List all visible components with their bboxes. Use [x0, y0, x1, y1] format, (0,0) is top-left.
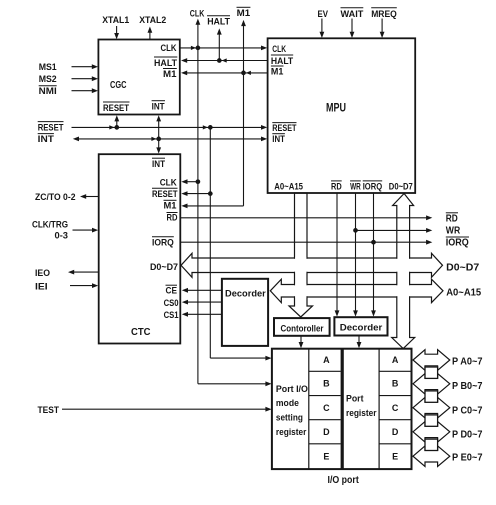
svg-text:CLK: CLK	[272, 44, 286, 55]
label WR right	[446, 225, 461, 236]
svg-text:MPU: MPU	[326, 101, 346, 115]
svg-text:RESET: RESET	[38, 122, 64, 133]
bus D0~D7 vertical (MPU down to I/O port)	[392, 194, 415, 349]
wire M1 down into CTC	[181, 73, 243, 208]
port square A-B	[425, 367, 438, 378]
svg-text:D0~D7: D0~D7	[446, 263, 479, 274]
svg-text:RD: RD	[167, 213, 178, 224]
svg-text:RESET: RESET	[103, 103, 129, 114]
svg-text:INT: INT	[152, 102, 165, 113]
bus A0~A15 vertical (MPU down to Contoroller)	[289, 193, 313, 317]
pin MPU WR	[350, 181, 361, 192]
wire CLK into CTC	[181, 179, 198, 184]
pin CTC D0~D7	[150, 262, 178, 273]
label RESET left	[38, 122, 64, 134]
svg-text:XTAL2: XTAL2	[139, 15, 166, 26]
port arrow P E0~7	[413, 446, 450, 467]
block Decorder U4	[222, 279, 268, 346]
pin MPU IORQ	[363, 181, 383, 192]
svg-text:WAIT: WAIT	[341, 9, 364, 20]
svg-text:I/O port: I/O port	[328, 475, 360, 486]
svg-text:B: B	[323, 379, 330, 389]
svg-text:A0~A15: A0~A15	[274, 181, 303, 192]
wire RESET into CTC	[181, 191, 210, 196]
wire XTAL2 out of CGC top	[148, 27, 153, 40]
title CTC	[131, 326, 151, 338]
pin CGC RESET	[103, 102, 130, 114]
svg-text:Decorder: Decorder	[340, 323, 383, 334]
svg-text:WR: WR	[446, 225, 461, 236]
wire IEO out of CTC	[68, 270, 99, 275]
svg-text:CS0: CS0	[164, 298, 179, 309]
label WAIT	[341, 8, 364, 20]
svg-text:Decorder: Decorder	[225, 288, 266, 299]
label MS2	[39, 74, 57, 85]
wire Decorder to I/O port	[357, 336, 362, 349]
text Port register	[346, 394, 377, 419]
svg-text:register: register	[276, 427, 307, 438]
wire CS0 from Decorder to CTC	[182, 300, 222, 305]
wire TEST into I/O port	[62, 407, 272, 412]
svg-text:M1: M1	[237, 8, 251, 19]
bus D0~D7 horizontal (CTC to right edge)	[181, 253, 443, 277]
wire MREQ into MPU top	[380, 19, 385, 39]
label IEI	[35, 281, 48, 292]
svg-text:NMI: NMI	[39, 86, 57, 97]
svg-text:IORQ: IORQ	[152, 237, 174, 248]
pin CTC RD	[167, 213, 178, 224]
svg-text:A0~A15: A0~A15	[446, 288, 481, 299]
svg-text:Contoroller: Contoroller	[281, 323, 324, 334]
svg-text:RD: RD	[446, 214, 458, 225]
svg-text:P A0~7: P A0~7	[452, 357, 483, 368]
title Contoroller	[281, 323, 324, 334]
label RD right	[446, 213, 458, 225]
svg-text:E: E	[323, 452, 329, 462]
node IORQ junction	[371, 240, 376, 245]
block Contoroller	[274, 318, 330, 336]
label I/O port	[328, 475, 360, 486]
node RESET-CTC junction	[208, 191, 213, 196]
port square B-C	[425, 391, 438, 402]
pin MPU RESET	[272, 123, 296, 135]
bus A0~A15 horizontal (Decorder to right edge)	[270, 279, 443, 302]
svg-text:XTAL1: XTAL1	[102, 15, 130, 26]
block CTC	[99, 154, 181, 343]
svg-text:P B0~7: P B0~7	[452, 381, 483, 392]
wire WR line to right edge	[356, 228, 433, 233]
label MREQ	[371, 8, 397, 20]
wire M1 vertical riser to top	[241, 20, 246, 73]
svg-text:Port: Port	[346, 394, 364, 405]
pin MPU A0~A15	[274, 181, 303, 192]
port square D-E	[425, 439, 438, 450]
svg-text:C: C	[392, 403, 399, 413]
wire CLK vertical down to I/O port	[198, 48, 272, 386]
label HALT top	[207, 16, 230, 28]
label 0-3	[55, 231, 69, 242]
svg-text:ZC/TO 0-2: ZC/TO 0-2	[35, 192, 76, 203]
title Decorder U4	[225, 288, 266, 299]
label MS1	[39, 62, 58, 73]
svg-text:IORQ: IORQ	[446, 238, 469, 249]
wire NMI into CGC	[72, 88, 99, 93]
node M1 junction	[241, 71, 246, 76]
svg-text:RD: RD	[331, 181, 342, 192]
block I/O port	[272, 349, 412, 469]
wire MS2 into CGC	[72, 76, 99, 81]
wire RESET branch up into CGC	[114, 115, 119, 127]
wire ZC/TO out of CTC	[80, 194, 99, 199]
wire INT main line	[73, 137, 267, 142]
pin CTC CS0	[164, 298, 179, 309]
svg-text:setting: setting	[276, 413, 303, 424]
svg-text:INT: INT	[272, 134, 285, 145]
svg-text:TEST: TEST	[38, 405, 60, 416]
title MPU	[326, 101, 346, 115]
wire RD vertical into Decorder	[335, 193, 340, 317]
svg-text:CLK: CLK	[190, 8, 205, 19]
wire RD line to right edge	[180, 215, 432, 220]
svg-text:M1: M1	[163, 69, 177, 80]
svg-text:INT: INT	[152, 159, 165, 170]
svg-text:A: A	[392, 355, 399, 365]
pin CGC CLK	[161, 43, 177, 54]
pin MPU HALT	[271, 55, 293, 67]
block CGC	[98, 40, 179, 115]
svg-text:RESET: RESET	[272, 123, 296, 134]
svg-text:CS1: CS1	[164, 310, 180, 321]
pin MPU CLK	[272, 44, 286, 55]
svg-text:P C0~7: P C0~7	[452, 406, 483, 417]
pin CTC CS1	[164, 310, 180, 321]
label CLK top	[190, 8, 205, 19]
label IEO	[35, 268, 50, 279]
wire HALT from MPU to CGC	[181, 58, 268, 63]
svg-text:CE: CE	[166, 286, 178, 297]
block MPU	[268, 38, 416, 193]
svg-text:IORQ: IORQ	[363, 181, 383, 192]
port square C-D	[425, 415, 438, 426]
title Decorder U5	[340, 323, 383, 334]
svg-text:IEO: IEO	[35, 268, 50, 279]
svg-text:CLK/TRG: CLK/TRG	[32, 220, 68, 231]
svg-text:D0~D7: D0~D7	[389, 181, 413, 192]
svg-text:HALT: HALT	[207, 17, 230, 28]
svg-text:MS1: MS1	[39, 62, 58, 73]
svg-text:0-3: 0-3	[55, 231, 69, 242]
pin MPU D0~D7	[389, 181, 413, 192]
wire WR vertical into Decorder	[353, 193, 358, 317]
label CLK/TRG	[32, 220, 68, 231]
svg-text:CTC: CTC	[131, 326, 151, 338]
label XTAL1	[102, 15, 130, 26]
pin MPU INT	[272, 134, 285, 146]
node HALT junction	[217, 58, 222, 63]
node CLK-CTC junction	[196, 179, 201, 184]
label TEST	[38, 405, 60, 416]
svg-text:P E0~7: P E0~7	[452, 453, 483, 464]
node RESET-vert junction	[208, 125, 213, 130]
svg-text:RESET: RESET	[152, 189, 178, 200]
port arrow P C0~7	[413, 397, 450, 418]
node RESET-CGC junction	[114, 125, 119, 130]
svg-text:E: E	[392, 452, 398, 462]
svg-text:D0~D7: D0~D7	[150, 262, 178, 273]
svg-text:Port I/O: Port I/O	[276, 384, 308, 395]
svg-text:CLK: CLK	[160, 177, 177, 188]
wire RESET main line to MPU	[72, 125, 268, 130]
label EV	[318, 9, 329, 20]
svg-text:register: register	[346, 408, 377, 419]
svg-text:C: C	[323, 403, 330, 413]
wire M1 from MPU to CGC	[181, 71, 268, 76]
label A0~A15 right	[446, 288, 481, 299]
wire CLK/TRG into CTC	[73, 228, 99, 233]
label XTAL2	[139, 15, 166, 26]
wire EV into MPU top	[320, 19, 325, 39]
svg-text:INT: INT	[38, 134, 54, 145]
bus crossing erase	[293, 257, 410, 298]
port arrow P B0~7	[413, 374, 450, 395]
node WR junction	[353, 228, 358, 233]
svg-text:CLK: CLK	[161, 43, 177, 54]
wire IEI into CTC	[70, 283, 98, 288]
port arrow P D0~7	[413, 422, 450, 443]
svg-text:A: A	[323, 355, 330, 365]
pin MPU RD	[331, 181, 342, 192]
wire HALT vertical riser to top	[217, 28, 222, 60]
pin CTC IORQ	[152, 237, 174, 249]
wire CE from Decorder to CTC	[182, 288, 222, 293]
label NMI	[39, 86, 57, 97]
label P A0~7	[452, 357, 483, 368]
svg-text:P D0~7: P D0~7	[452, 430, 483, 441]
svg-text:HALT: HALT	[154, 58, 177, 69]
pin CTC RESET	[152, 188, 178, 200]
wire WAIT into MPU top	[350, 19, 355, 39]
svg-text:mode: mode	[276, 398, 299, 409]
text Port I/O mode setting register	[276, 384, 308, 438]
label M1 top	[237, 7, 251, 18]
label INT left	[38, 134, 54, 146]
pin CTC M1	[164, 200, 178, 211]
svg-text:D: D	[323, 427, 330, 437]
wire XTAL1 into CGC top	[114, 26, 119, 39]
title CGC	[110, 79, 127, 91]
wire INT branch down into CTC	[156, 139, 161, 154]
wire INT branch up into CGC	[156, 115, 161, 139]
wire CLK from CGC to MPU	[180, 46, 267, 51]
svg-text:WR: WR	[350, 181, 361, 192]
svg-text:M1: M1	[164, 201, 178, 212]
label D0~D7 right	[446, 263, 479, 274]
labels port cells A-E	[323, 355, 399, 461]
label IORQ right	[446, 237, 469, 249]
wire CS1 from Decorder to CTC	[182, 312, 222, 317]
wire IORQ vertical into Decorder	[371, 193, 376, 317]
svg-text:CGC: CGC	[110, 79, 127, 91]
wire Contoroller to I/O port	[299, 336, 304, 348]
label P E0~7	[452, 453, 483, 464]
svg-text:D: D	[392, 427, 399, 437]
svg-text:EV: EV	[318, 9, 329, 20]
block Decorder U5	[334, 317, 387, 335]
node CLK junction	[196, 46, 201, 51]
port arrow P A0~7	[413, 350, 450, 371]
wire MS1 into CGC	[72, 64, 99, 69]
svg-text:B: B	[392, 379, 399, 389]
node INT junction	[156, 137, 161, 142]
svg-text:M1: M1	[271, 66, 284, 77]
pin CGC HALT	[154, 57, 177, 69]
pin MPU M1	[271, 66, 284, 77]
label P D0~7	[452, 430, 483, 441]
pin CGC INT	[152, 101, 165, 113]
wire CLK vertical riser to top	[196, 19, 201, 48]
pin CGC M1	[163, 69, 177, 81]
pin CTC CLK	[160, 177, 177, 188]
svg-text:HALT: HALT	[271, 56, 293, 67]
pin CTC CE	[166, 285, 178, 296]
svg-text:MREQ: MREQ	[371, 9, 397, 20]
svg-text:MS2: MS2	[39, 74, 57, 85]
label P B0~7	[452, 381, 483, 392]
svg-text:IEI: IEI	[35, 281, 48, 292]
wire IORQ line to right edge	[180, 240, 432, 245]
pin CTC INT	[152, 158, 165, 170]
label ZC/TO 0-2	[35, 192, 76, 203]
wire RESET vertical down to I/O port	[210, 127, 271, 360]
label P C0~7	[452, 406, 483, 417]
